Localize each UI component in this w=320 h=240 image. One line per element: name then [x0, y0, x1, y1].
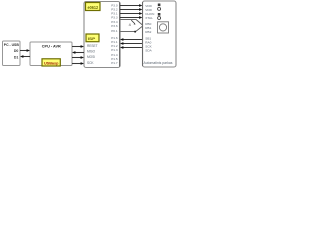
svg-text:Automatinis parkas: Automatinis parkas [144, 61, 173, 65]
box CPU-AVR [30, 42, 72, 66]
label ISP yellow [86, 34, 99, 42]
bus arrow 4 bits [121, 20, 144, 32]
box programmer connector [84, 2, 120, 68]
svg-text:SDA: SDA [145, 49, 152, 53]
wire SCK CPU to connector [72, 63, 81, 65]
bus corner dot [134, 31, 136, 33]
wire B1 chip to connector [123, 39, 143, 41]
wire B2 chip to connector [123, 43, 143, 45]
svg-text:D0: D0 [14, 49, 19, 53]
svg-text:SCK: SCK [87, 61, 94, 65]
svg-text:XTAL: XTAL [145, 16, 153, 20]
indicator circle 1 [158, 7, 161, 10]
bus slash [131, 20, 135, 24]
box target chip [143, 1, 177, 67]
wire CLK connector to chip [120, 13, 140, 15]
wire MOSI CPU to connector [72, 57, 81, 59]
svg-text:CPU - AVR: CPU - AVR [42, 45, 61, 49]
arrowhead RESET [81, 45, 84, 48]
arrowhead into CPU [27, 49, 30, 52]
button circle [159, 24, 166, 31]
svg-text:RESET: RESET [87, 44, 98, 48]
arrowhead VDD1 [139, 4, 142, 7]
svg-text:P1.3: P1.3 [111, 48, 118, 52]
svg-text:USBasp: USBasp [44, 61, 59, 65]
wire D0 PC to CPU [20, 50, 27, 52]
box PC-USB [3, 41, 21, 66]
arrowhead SCK [81, 62, 84, 65]
wire MISO connector to CPU [75, 52, 84, 54]
arrowhead VDD2 [139, 8, 142, 11]
arrowhead MOSI [81, 56, 84, 59]
svg-text:P1.7: P1.7 [111, 61, 118, 65]
wire XT connector to chip [120, 17, 140, 19]
svg-text:D1: D1 [14, 56, 19, 60]
wire D1 CPU to PC [23, 56, 30, 58]
wire RESET CPU to connector [72, 46, 81, 48]
arrowhead CLK [139, 12, 142, 15]
svg-text:ISP: ISP [88, 37, 96, 41]
arrowhead B3 [120, 46, 123, 49]
wire VDD2 connector to chip [120, 9, 140, 11]
label USBasp yellow [42, 59, 60, 66]
arrowhead B2 [120, 42, 123, 45]
svg-text:MISO: MISO [87, 49, 96, 53]
label e0612 yellow [86, 3, 101, 11]
arrowhead B1 [120, 38, 123, 41]
dark left edge of chip box [142, 2, 144, 66]
svg-text:RB2: RB2 [145, 30, 151, 34]
indicator square 1 [158, 4, 161, 7]
svg-text:e0612: e0612 [88, 5, 99, 10]
wire VDD1 connector to chip [120, 5, 140, 7]
dark right edge of connector box [119, 3, 121, 67]
arrowhead into PC [20, 55, 23, 58]
arrowhead XT [139, 16, 142, 19]
indicator circle 2 [158, 17, 161, 20]
svg-text:P0.1: P0.1 [111, 29, 118, 33]
svg-text:P3.3: P3.3 [111, 16, 118, 20]
arrowhead MISO [72, 51, 75, 54]
svg-text:PC - USB: PC - USB [4, 43, 19, 47]
bus slash arrowtip [134, 24, 136, 25]
svg-text:P3.6: P3.6 [111, 24, 118, 28]
indicator square 2 [158, 13, 161, 16]
svg-text:MOSI: MOSI [87, 55, 95, 59]
wire B3 chip to connector [123, 47, 143, 49]
svg-text:4: 4 [129, 23, 131, 27]
button square [158, 22, 169, 33]
